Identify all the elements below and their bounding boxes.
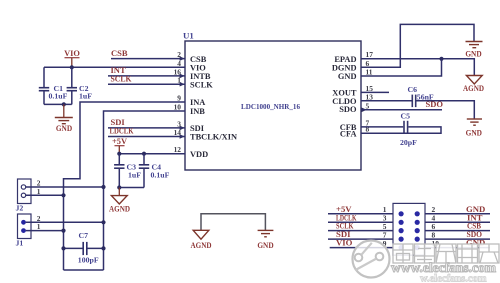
junction J2.2 bbox=[101, 185, 105, 189]
wire SDI net (pin 3) bbox=[108, 127, 185, 129]
svg-text:1: 1 bbox=[37, 222, 41, 231]
junction EPAD/GND11 bbox=[439, 57, 443, 61]
svg-text:AGND: AGND bbox=[109, 205, 130, 214]
capacitor C7 bbox=[64, 242, 104, 255]
U1 left pin names bbox=[190, 55, 237, 159]
svg-text:GND: GND bbox=[466, 128, 482, 137]
ground GND (top right) bbox=[465, 42, 482, 59]
svg-text:VDD: VDD bbox=[190, 150, 208, 159]
wire P1 pin 7 (SDI) bbox=[328, 238, 393, 240]
wire C3-C4 bottom row bbox=[119, 187, 144, 189]
svg-text:C6: C6 bbox=[408, 85, 418, 94]
svg-text:AGND: AGND bbox=[463, 84, 484, 93]
wire C1-C2 ground row bbox=[44, 103, 72, 105]
svg-text:1uF: 1uF bbox=[79, 92, 92, 101]
C4 labels bbox=[151, 163, 170, 180]
wire INA net (pin 9) bbox=[64, 102, 186, 270]
wire P1 pin 8 (SDO) bbox=[425, 238, 490, 240]
wire INT net (pin 16) bbox=[108, 75, 185, 77]
wire GND net (pin 11) bbox=[361, 59, 442, 76]
capacitor C6 bbox=[412, 95, 415, 108]
wire SDO net (pin 5) bbox=[361, 109, 442, 111]
svg-text:10: 10 bbox=[174, 103, 182, 112]
svg-text:J2: J2 bbox=[16, 204, 24, 213]
svg-text:6: 6 bbox=[366, 59, 370, 68]
wire LDCLK net (pin 14) bbox=[108, 136, 185, 138]
connector P1 header 2x5 bbox=[393, 203, 425, 255]
svg-text:9: 9 bbox=[177, 94, 181, 103]
ground GND (right, below C6) bbox=[466, 119, 482, 137]
svg-text:SDO: SDO bbox=[426, 99, 444, 109]
svg-text:CSB: CSB bbox=[190, 55, 207, 64]
svg-text:w.elecfans.com: w.elecfans.com bbox=[420, 274, 487, 283]
wire P1 pin 2 (GND) bbox=[425, 213, 490, 215]
C6 labels bbox=[408, 85, 434, 101]
svg-text:CFA: CFA bbox=[340, 129, 357, 138]
capacitor C5 bbox=[404, 121, 408, 133]
wire bottom loop bbox=[64, 269, 104, 271]
junction C7 left bbox=[61, 246, 65, 250]
wire VDD net (pin 12) bbox=[119, 153, 185, 155]
wire P1 pin 4 (INT) bbox=[425, 221, 490, 223]
svg-text:0.1uF: 0.1uF bbox=[151, 170, 170, 179]
svg-text:12: 12 bbox=[174, 145, 182, 154]
svg-text:SCLK: SCLK bbox=[111, 73, 132, 83]
wire P1 pin 5 (SCLK) bbox=[328, 230, 393, 232]
wire INB net (pin 10) bbox=[104, 111, 186, 270]
wire P1 pin 1 (+5V) bbox=[328, 213, 393, 215]
svg-text:VIO: VIO bbox=[336, 238, 353, 248]
junction AGND stem bbox=[117, 185, 121, 189]
wire AGND-GND bridge (bottom middle) bbox=[201, 214, 265, 231]
wire CFB loop (pin 7) bbox=[361, 126, 403, 128]
wire DGND net (pin 6) bbox=[361, 24, 474, 67]
svg-text:C7: C7 bbox=[79, 231, 89, 240]
svg-text:0.1uF: 0.1uF bbox=[49, 92, 68, 101]
svg-text:GND: GND bbox=[56, 124, 72, 133]
value label LDC1000_NHR_16 bbox=[241, 102, 300, 111]
junction J1.2 bbox=[101, 220, 105, 224]
ground AGND (below C3/C4) bbox=[109, 188, 130, 214]
junction ground stem bbox=[62, 102, 66, 106]
svg-text:17: 17 bbox=[366, 50, 374, 59]
C1 labels bbox=[49, 84, 68, 101]
svg-text:5: 5 bbox=[366, 101, 370, 110]
svg-text:LDC1000_NHR_16: LDC1000_NHR_16 bbox=[241, 102, 300, 111]
IC U1 body bbox=[183, 31, 361, 171]
ground AGND (bottom middle) bbox=[191, 230, 212, 250]
capacitor C4 bbox=[139, 154, 149, 188]
svg-text:INA: INA bbox=[190, 98, 205, 107]
connector J1 bbox=[16, 214, 41, 248]
C5 labels bbox=[400, 111, 417, 147]
wire J1 pin 1 to INA rail bbox=[26, 230, 64, 232]
svg-text:DGND: DGND bbox=[332, 64, 357, 73]
svg-text:13: 13 bbox=[366, 92, 374, 101]
P1 left pin numbers bbox=[383, 205, 387, 248]
junction C7 right bbox=[101, 246, 105, 250]
svg-text:8: 8 bbox=[366, 125, 370, 134]
svg-text:SDO: SDO bbox=[339, 105, 357, 114]
svg-text:SCLK: SCLK bbox=[190, 80, 213, 89]
wire CLDO net (pin 13) bbox=[361, 100, 412, 102]
wire XOUT stub (pin 15) bbox=[361, 91, 389, 93]
svg-text:CSB: CSB bbox=[111, 48, 128, 58]
C7 labels bbox=[78, 231, 99, 264]
U1 left pin numbers bbox=[174, 50, 182, 154]
P1 right pin numbers bbox=[432, 205, 440, 248]
junction VIO/C2 bbox=[70, 65, 74, 69]
svg-text:LDCLK: LDCLK bbox=[110, 126, 134, 136]
svg-text:AGND: AGND bbox=[191, 241, 212, 250]
C2 labels bbox=[79, 84, 92, 101]
capacitor C2 bbox=[67, 67, 77, 104]
ground AGND (top right) bbox=[463, 76, 484, 93]
capacitor C3 bbox=[114, 154, 124, 188]
svg-text:20pF: 20pF bbox=[400, 138, 417, 147]
wire J2 pin 2 to INB rail bbox=[26, 186, 104, 188]
svg-text:U1: U1 bbox=[183, 31, 194, 41]
wire P1 pin 10 (GND) bbox=[425, 247, 490, 249]
wire P1 pin 9 (VIO) bbox=[330, 247, 393, 249]
svg-text:GND: GND bbox=[338, 72, 357, 81]
wire SCLK net (pin 1) bbox=[108, 83, 185, 85]
capacitor C1 bbox=[39, 67, 49, 104]
power port VIO bbox=[64, 49, 80, 67]
svg-text:11: 11 bbox=[366, 68, 373, 77]
wire C5 to CFA (pin 8) bbox=[361, 127, 441, 133]
U1 right pin names bbox=[332, 55, 357, 138]
wire J2 pin 1 to INA rail bbox=[26, 194, 64, 196]
watermark hanzi row bbox=[393, 244, 499, 263]
wire C6 to GND bbox=[416, 101, 474, 119]
watermark logo bbox=[353, 241, 390, 278]
svg-text:C5: C5 bbox=[401, 111, 411, 120]
wire J1 pin 2 to INB rail bbox=[26, 221, 104, 223]
svg-text:INB: INB bbox=[190, 107, 205, 116]
svg-text:+5V: +5V bbox=[112, 137, 127, 146]
junction J1.1 bbox=[61, 229, 65, 233]
svg-text:GND: GND bbox=[257, 241, 273, 250]
ground GND (below C1/C2) bbox=[55, 104, 73, 133]
wire CSB net (pin 2) bbox=[111, 58, 185, 60]
svg-text:100pF: 100pF bbox=[78, 255, 99, 264]
wire P1 pin 3 (LDCLK) bbox=[328, 221, 393, 223]
power port +5V bbox=[112, 137, 127, 154]
junction J2.1 bbox=[61, 193, 65, 197]
wire P1 pin 6 (CSB) bbox=[425, 230, 490, 232]
connector J2 bbox=[16, 179, 41, 213]
wire EPAD net (pin 17) bbox=[361, 59, 474, 76]
junction VDD/C4 bbox=[142, 152, 146, 156]
C3 labels bbox=[127, 163, 142, 180]
svg-text:TBCLK/XIN: TBCLK/XIN bbox=[190, 133, 237, 142]
svg-text:VIO: VIO bbox=[64, 49, 80, 58]
U1 right pin numbers bbox=[366, 50, 374, 134]
svg-text:J1: J1 bbox=[16, 239, 24, 248]
svg-text:GND: GND bbox=[465, 50, 481, 59]
U1 SDO pin arrow bbox=[362, 108, 367, 113]
svg-text:1uF: 1uF bbox=[128, 170, 141, 179]
ground GND (bottom middle) bbox=[257, 230, 273, 250]
U1 left pin arrows bbox=[180, 56, 185, 139]
wire VIO rail (pin 4) bbox=[44, 66, 185, 68]
junction VDD/C3 bbox=[117, 152, 121, 156]
